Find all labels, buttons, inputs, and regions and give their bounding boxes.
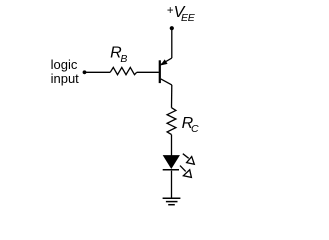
wire: emitter to +VEE terminal: [171, 30, 173, 59]
LED D1 emission arrow 1 head: [187, 157, 195, 165]
svg-text:EE: EE: [181, 12, 196, 24]
wire: RC to LED: [171, 135, 173, 156]
svg-text:input: input: [51, 71, 80, 86]
node: logic input terminal dot: [83, 70, 87, 74]
wire: LED to ground: [171, 171, 173, 199]
LED D1 emission arrow 2 shaft: [180, 166, 186, 172]
LED D1 triangle (anode): [163, 156, 179, 169]
LED D1 cathode bar: [163, 169, 179, 171]
LED D1 emission arrow 1 shaft: [183, 154, 189, 159]
transistor Q1 collector lead: [161, 79, 172, 85]
LED D1 emission arrow 2 head: [183, 170, 191, 178]
svg-text:C: C: [191, 123, 199, 135]
wire: collector to RC: [171, 85, 173, 108]
wire: RB to transistor base: [137, 71, 159, 73]
resistor RC: [167, 108, 176, 135]
transistor Q1 (PNP) base bar: [159, 60, 161, 83]
svg-text:B: B: [120, 53, 127, 65]
node: +VEE terminal dot: [170, 26, 174, 30]
transistor Q1 emitter arrow (PNP, pointing into base): [161, 60, 167, 65]
wire: input terminal to RB: [86, 71, 110, 73]
ground symbol: [163, 197, 181, 199]
resistor RB: [110, 67, 137, 74]
transistor Q1 emitter lead: [161, 58, 172, 64]
